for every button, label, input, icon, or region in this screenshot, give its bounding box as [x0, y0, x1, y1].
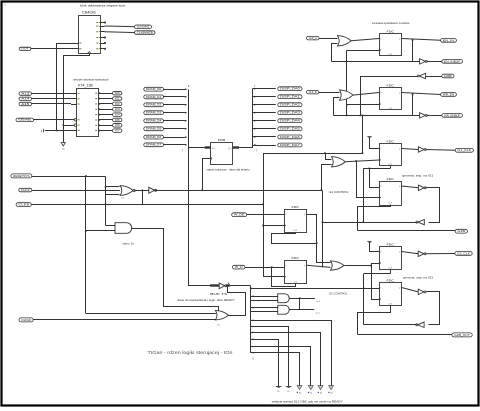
svg-text:FDC: FDC: [387, 278, 396, 282]
bus entry thick stub FD8 input: [205, 146, 211, 148]
wire G2 output to F2 D: [353, 93, 379, 96]
bus exit thick stub FD8 output: [233, 146, 239, 148]
vertical clock x356 to F4 C: [357, 162, 380, 198]
ground bar symbol 2: [286, 386, 292, 388]
svg-text:TIGari - rdzen logiki sterujac: TIGari - rdzen logiki sterujacej - tOri: [148, 350, 233, 355]
wire into AND input 1: [106, 225, 116, 227]
svg-text:b2a: b2a: [122, 198, 125, 200]
junction dot phi at G3 branch: [321, 190, 323, 192]
gate U6 OR 3-input bottom: [215, 310, 228, 320]
pin marks inside C64CIE: [96, 22, 98, 23]
enable pin G2A bubble: [74, 119, 77, 122]
wire G1 output to F1 D: [351, 39, 379, 41]
svg-text:A2: A2: [320, 391, 322, 394]
wire output bus to tag VD6: [252, 136, 275, 138]
wire bus to AND E2b input1: [251, 307, 278, 309]
svg-text:M1: M1: [287, 391, 289, 393]
wire M1 Q right and down to OR G4: [307, 215, 331, 263]
output bus vertical: [252, 89, 254, 148]
pin stub C64CIE left 2: [73, 48, 79, 50]
wire output bus to tag VD2: [252, 104, 275, 106]
svg-text:W_DE: W_DE: [234, 215, 245, 217]
wire to inverter G0 from mesh: [360, 76, 419, 78]
pin stub C64CIE right 3: [100, 31, 105, 33]
wire F4 Q to inverter F4a: [402, 186, 419, 188]
svg-text:CAS0: CAS0: [21, 319, 32, 322]
net label tag VD2 right column: [278, 103, 302, 107]
net label tag CLKDOT: [16, 203, 31, 207]
wire FD8 output to right bus: [239, 147, 252, 149]
wire bus branch 6 to ground column x=299.5: [251, 353, 300, 387]
net label tag AEC wide: [16, 118, 34, 122]
buffer U7 BUF TS tri-state: [219, 283, 225, 289]
junction dot mesh: [346, 115, 348, 117]
svg-text:A0: A0: [62, 148, 64, 151]
wire bus branch 3 to ground column x=320.5: [251, 333, 321, 387]
wire bus branch 4 to ground column x=278.6: [251, 340, 279, 387]
net label tag CLK8MHZ at C64CIE output 3: [135, 31, 156, 35]
corner mark: [4, 3, 7, 6]
pin stub K74_138 output Y6: [99, 125, 113, 127]
inverter U19 F4b left-pointing: [418, 219, 424, 224]
svg-text:W_D: W_D: [235, 267, 244, 269]
inverter U17 F3a: [418, 147, 424, 152]
junction dot F2 C: [346, 104, 348, 106]
wire C64CIE pin2 to tag: [105, 25, 135, 28]
net label tag Y6: [113, 124, 122, 128]
enable pin G1 stub: [45, 130, 77, 132]
wire tag to M2 D input: [245, 267, 284, 269]
wire M1 CLR feedback loop: [272, 233, 317, 244]
net label tag PHI0 at C64CIE output 2: [135, 25, 152, 29]
svg-text:C64CIE: C64CIE: [82, 10, 97, 14]
ground arrow symbol 4: [329, 386, 334, 390]
svg-text:FDC: FDC: [387, 29, 396, 33]
wire tag A15 to K74: [32, 103, 72, 105]
svg-text:A14: A14: [21, 98, 30, 101]
svg-text:DRAM_D7: DRAM_D7: [146, 144, 162, 147]
svg-text:FD8: FD8: [218, 138, 226, 142]
wire M2 Q to OR G4 input: [307, 265, 331, 267]
wire G3 input 2 from phi vertical: [322, 165, 332, 191]
pin marks inside K74_138: [95, 93, 97, 94]
wire NOR output to buffer: [134, 190, 149, 192]
wire RESET to NOR input 1 elbow: [106, 177, 120, 187]
net label tag D6 mid column: [144, 135, 164, 139]
bus thick stub BUFTS output: [226, 284, 230, 286]
net label tag D3 mid column: [144, 111, 164, 115]
junction dot F2 Q: [412, 94, 414, 96]
svg-text:CLK2: CLK2: [21, 190, 31, 192]
flip-flop F6 FDC: [380, 283, 402, 306]
wire buffer output phi long line right: [155, 190, 322, 192]
junction dot RESET branch: [85, 175, 87, 177]
power VCC symbol 2: [367, 241, 371, 243]
wire tag D0 to input bus: [164, 89, 186, 91]
svg-text:A1: A1: [310, 391, 312, 394]
wire C64CIE pin3 to tag: [105, 31, 135, 34]
net label tag D1 mid column: [144, 95, 164, 99]
svg-text:generat. zeg. na /G1: generat. zeg. na /G1: [402, 174, 434, 177]
wire tag AEC to G2A pin: [34, 119, 75, 121]
wire F1 Q to tag R1: [402, 39, 441, 41]
inverter U15 F2a: [420, 113, 426, 118]
svg-text:DISP_DA6: DISP_DA6: [280, 136, 301, 139]
flip-flop F3 FDC: [380, 144, 402, 166]
wire inverter F1a to tag R2: [427, 61, 442, 63]
gate U8 AND E2a: [278, 294, 290, 303]
junction dot NOR output: [142, 190, 144, 192]
tick mark above BUFTS enable junction: [228, 283, 229, 285]
svg-text:RESETSYS: RESETSYS: [13, 176, 30, 178]
svg-text:M0: M0: [277, 391, 279, 393]
wire C64CIE left pin1 down to K74 G1 net: [57, 44, 73, 131]
net label tag R3: [442, 74, 454, 78]
junction dot F6 D branch: [250, 288, 252, 290]
svg-text:DISP_DA5: DISP_DA5: [280, 128, 301, 131]
svg-text:DISP_DA2: DISP_DA2: [280, 104, 301, 107]
net label tag Y4: [113, 113, 122, 117]
ground arrow symbol 3: [318, 386, 323, 390]
junction dot FD8 clock on phi net: [201, 190, 203, 192]
net label tag D5 mid column: [144, 127, 164, 131]
wire G3 input 1 from y153 line: [326, 154, 332, 160]
svg-text:DRAM_D3: DRAM_D3: [146, 112, 162, 115]
wire output bus to tag VD1: [252, 96, 275, 98]
junction dot on F4b line: [362, 221, 364, 223]
wire tag CLKDOT right long: [31, 204, 263, 206]
chip U2 K74_138: [77, 89, 99, 137]
net label tag Y0: [113, 91, 122, 95]
svg-text:dane do wyswietlenia i sygn. o: dane do wyswietlenia i sygn. obsl. READY: [178, 299, 236, 302]
wire clock to M2 C: [263, 276, 284, 278]
junction dot M2 loop: [271, 266, 273, 268]
svg-text:DISP_DA3: DISP_DA3: [280, 112, 301, 115]
flip-flop F2 FDC: [380, 88, 402, 110]
wire bus to AND E2b input2: [251, 311, 278, 313]
net label tag Y2: [113, 102, 122, 106]
svg-text:DISP_DA4: DISP_DA4: [280, 120, 301, 123]
pin stub C64CIE right 1: [100, 22, 105, 24]
net label tag R8: [455, 252, 472, 256]
vertical x363.2 down to F4b output line: [363, 168, 365, 222]
wire AND E2b output: [289, 309, 314, 311]
svg-text:E1 CONTROL: E1 CONTROL: [330, 190, 350, 194]
wire AND input 2: [86, 230, 115, 232]
net label tag VD6 right column: [278, 135, 302, 139]
vertical wire RESET branch down to OR: [85, 176, 87, 313]
wire tag D5 to input bus: [164, 128, 186, 130]
svg-text:DRAM_D4: DRAM_D4: [146, 120, 162, 123]
net label tag to M1 D: [232, 213, 247, 217]
svg-text:dekoder obszarow adresowych: dekoder obszarow adresowych: [73, 78, 109, 81]
power VCC symbol 1: [367, 136, 371, 138]
net label tag VD0 right column: [278, 87, 302, 91]
svg-text:Q[..]: Q[..]: [228, 148, 232, 150]
svg-text:IOENABL: IOENABL: [18, 119, 32, 122]
wire R7 net to F4 CLR: [358, 205, 391, 231]
wire tag RESET right: [32, 176, 106, 178]
wire feedback line y61 left: [332, 61, 413, 63]
svg-text:BUF TS: BUF TS: [210, 292, 227, 296]
svg-text:blok taktowania zegara syst.: blok taktowania zegara syst.: [80, 4, 126, 8]
net label tag Y5: [113, 118, 122, 122]
net label tag CLK to G2: [307, 90, 319, 94]
wire F2 Q to tag R4: [402, 93, 441, 95]
inverter U21 F6a: [418, 289, 424, 294]
junction dot: [56, 130, 58, 132]
wire tag to G1 input: [319, 38, 338, 40]
junction dot y153: [362, 152, 364, 154]
wire AND E2a output: [289, 298, 315, 300]
svg-text:wejscia wariant 512 OBC gdy ni: wejscia wariant 512 OBC gdy nie uzyte na…: [272, 399, 343, 403]
flip-flop F1 FDC: [380, 34, 402, 56]
svg-text:E2 CONTROL: E2 CONTROL: [329, 291, 348, 295]
junction dot M1 C: [262, 225, 264, 227]
chip U1 C64CIE: [79, 16, 101, 54]
pin stub K74_138 output Y4: [99, 114, 113, 116]
svg-text:CLK8MHZB: CLK8MHZB: [137, 32, 154, 34]
junction dot clk8 join: [262, 204, 264, 206]
svg-text:G1B: G1B: [457, 231, 465, 233]
svg-text:K74_138: K74_138: [78, 84, 93, 88]
inverter U22 F6b left-pointing: [418, 322, 424, 327]
net label tag CLK2: [19, 188, 32, 192]
wire to inverter F1a: [413, 61, 420, 63]
svg-text:name 2x: name 2x: [122, 244, 135, 246]
wire BUFTS output to E2 bus corner: [230, 285, 251, 287]
net label tag R1: [441, 39, 457, 43]
wire VCC2 down to F5 D: [370, 243, 380, 252]
wire output bus to tag VD0: [252, 88, 275, 90]
gate U9 AND E2b: [278, 305, 290, 314]
input bus vertical to FD8: [189, 90, 205, 148]
gate U14 OR G2: [340, 90, 354, 100]
net label tag CLK to G1: [307, 36, 320, 40]
wire tag CLK2 to NOR input 2: [32, 190, 120, 192]
net label tag A13 input A: [19, 92, 32, 95]
svg-text:sterowanie wyswietlaniem na ek: sterowanie wyswietlaniem na ekranie: [372, 22, 410, 25]
svg-text:DRAM_D1: DRAM_D1: [146, 96, 162, 99]
svg-text:CLK_B: CLK_B: [309, 92, 317, 94]
wire tag D4 to input bus: [164, 120, 186, 122]
junction dot M1 CLR loop: [316, 242, 318, 244]
net label tag R6: [455, 148, 473, 152]
gate U5 AND left: [115, 223, 132, 234]
junction dot NOR in1: [105, 186, 107, 188]
wire clock down to F6 C: [372, 266, 380, 300]
wire F5 Q to inverter F5a: [402, 252, 419, 254]
svg-text:A0: A0: [299, 391, 301, 394]
E2 bus vertical: [250, 286, 252, 353]
net label tag RESET wide: [11, 174, 32, 178]
clock mesh vertical x346.8: [346, 50, 348, 115]
pin stub K74_138 output Y2: [99, 103, 113, 105]
svg-text:DOT: DOT: [21, 49, 29, 51]
pin stub C64CIE right 2: [100, 26, 105, 28]
wire tag to C64CIE left pin2: [31, 48, 73, 50]
wire bottom line to tag R7: [358, 230, 456, 232]
wire long to F6 D input: [251, 288, 379, 290]
junction dot x322 y222: [322, 221, 324, 223]
svg-text:A15: A15: [21, 103, 30, 106]
net label tag R2: [442, 60, 463, 64]
junction dot: [360, 115, 362, 117]
pin stub C64CIE left 1: [73, 43, 79, 45]
svg-text:DISP_DA1: DISP_DA1: [280, 96, 301, 99]
vertical from NOR area down to AND input: [105, 187, 107, 225]
inverter U20 F5a: [418, 251, 424, 256]
svg-text:FDC: FDC: [387, 177, 396, 181]
pin stub K74_138 output Y5: [99, 119, 113, 121]
vertical x322.5 from phi junction down: [322, 191, 324, 268]
junction dot clock branch x356: [355, 160, 357, 162]
wire reset branch to OR input: [86, 313, 216, 315]
net label tag R7: [455, 229, 467, 233]
svg-text:rejestr buforowy - dane dla ek: rejestr buforowy - dane dla ekranu: [207, 169, 251, 172]
net label tag D7 mid column: [144, 143, 164, 147]
wire F6b output left: [364, 324, 417, 326]
pin stub K74_138 input C: [71, 104, 77, 106]
net label tag A14 input B: [19, 97, 32, 100]
wire F5 CLR net horizontal: [364, 273, 391, 275]
vertical x363.8 down to F6b output line: [363, 274, 365, 325]
wire inverter F4a right and down: [426, 188, 440, 223]
wire F1 C clock from mesh: [347, 50, 379, 52]
junction dot F1 Q: [412, 39, 414, 41]
stub up to F5 CLR: [390, 270, 392, 274]
vertical mesh x360.4: [360, 76, 362, 115]
pin stub K74_138 input B: [71, 98, 77, 100]
wire output bus to tag VD4: [252, 120, 275, 122]
junction dot feedback drop: [362, 115, 364, 117]
gate U16 OR G3: [332, 157, 346, 167]
inverter U18 F4a: [418, 185, 424, 190]
wire tag D1 to input bus: [164, 96, 186, 98]
wire FD8 clock from control net: [203, 159, 211, 191]
net label tag VD5 right column: [278, 127, 302, 131]
svg-text:G2B_OUT: G2B_OUT: [454, 335, 471, 337]
net label tag Y7: [113, 129, 122, 133]
svg-text:G0B: G0B: [444, 76, 452, 78]
flip-flop M1 FDC: [285, 210, 307, 233]
wire tag D6 to input bus: [164, 137, 186, 139]
junction dot G4 clock branch: [370, 265, 372, 267]
svg-text:FDC: FDC: [292, 256, 301, 260]
junction dot on vertical 105.5: [105, 204, 107, 206]
svg-text:G1_CLK: G1_CLK: [457, 150, 471, 152]
wire F3 CLR net horizontal: [363, 168, 390, 170]
register FD8: [211, 143, 233, 165]
svg-text:EN_IN: EN_IN: [443, 40, 455, 42]
wire inverter F2a to tag R5: [427, 115, 442, 117]
wire bus branch 2 to ground column x=288.6: [251, 327, 289, 387]
wire F4 D from CLR net: [370, 169, 380, 188]
net label tag D4 mid column: [144, 119, 164, 123]
svg-text:b1a: b1a: [217, 325, 220, 327]
net label tag R9: [452, 333, 472, 337]
feedback wire F1 to G1 second input: [332, 44, 338, 62]
junction dot F4 D branch: [369, 168, 371, 170]
svg-text:EN_INBUF: EN_INBUF: [444, 61, 461, 63]
svg-text:CLK_A: CLK_A: [309, 37, 318, 40]
feedback line y115 left: [334, 115, 420, 117]
wire tag D7 to input bus: [164, 144, 186, 146]
pin stub K74_138 output Y3: [99, 109, 113, 111]
flip-flop M2 FDC: [285, 261, 307, 284]
flip-flop F5 FDC: [380, 247, 402, 270]
svg-text:FDC: FDC: [387, 139, 396, 143]
wire G4 output to F5 F6 clocks: [345, 264, 380, 266]
svg-text:D[..]: D[..]: [212, 148, 216, 150]
gate U10 OR G4: [331, 261, 345, 270]
enable pin G2B bubble: [74, 124, 77, 127]
svg-text:A13: A13: [21, 92, 30, 95]
wire bus to AND E2a input1: [251, 296, 278, 298]
net label tag VD7 right column: [278, 143, 302, 147]
feedback wire F2 to G2 second input: [334, 98, 340, 116]
svg-text:FDC: FDC: [387, 242, 396, 246]
svg-text:DISP_DA0: DISP_DA0: [280, 88, 301, 91]
wire VCC1 down to F3 D: [370, 138, 380, 149]
pin stub K74_138 output Y7: [99, 130, 113, 132]
ground arrow symbol 2: [308, 386, 313, 390]
wire M2 CLR feedback loop: [272, 268, 296, 287]
junction dot on G2B wire: [63, 124, 65, 126]
net label tag VD1 right column: [278, 95, 302, 99]
wire R9 net to F6 CLR: [358, 306, 391, 335]
svg-text:DRAM_D5: DRAM_D5: [146, 128, 162, 131]
net label tag to M2 D: [233, 265, 246, 269]
wire tag CAS to OR bottom input: [33, 319, 217, 321]
wire output bus to tag VD3: [252, 112, 275, 114]
junction dot: [299, 297, 301, 299]
svg-text:CLK8: CLK8: [18, 204, 30, 206]
wire OR output loop to BUFTS enable: [228, 287, 246, 316]
wire F3 Q to inverter F3a: [402, 149, 419, 150]
wire bus branch 1 to ground column x=331.1: [251, 321, 332, 387]
wire bus branch 5 to ground column x=310.8: [251, 347, 311, 387]
net label tag D2 mid column: [144, 103, 164, 107]
wire inverter F3a to tag R6: [425, 149, 455, 152]
gate U3 NOR 3-input: [120, 186, 133, 196]
wire F6 Q to inverter F6a: [402, 288, 419, 292]
wire NOR output down to clk8 line: [142, 191, 144, 205]
wire F2 Q down to inverter F2a: [412, 94, 414, 115]
wire y153 left to clock net x263: [263, 153, 363, 155]
clock net vertical x263: [263, 153, 265, 277]
svg-text:G2_CLK: G2_CLK: [457, 253, 471, 255]
pin stub K74_138 output Y0: [99, 93, 113, 95]
net label tag DOTCLK left of C64CIE: [19, 47, 31, 50]
vertical bus from input bus down to BUFTS: [189, 148, 211, 286]
net label tag CAS bottom left: [19, 318, 33, 322]
wire NOR input 3: [106, 194, 120, 196]
wire continues down to off-page arrow: [63, 125, 65, 142]
wire inverter F6a right and down: [426, 292, 440, 325]
wire F4b output left to x322 vertical: [323, 222, 417, 224]
net label tag Y1: [113, 97, 122, 101]
vertical cross-connect between AND outputs: [299, 298, 301, 310]
wire output bus to tag VD5: [252, 128, 275, 130]
wire AND output right and down: [132, 229, 219, 312]
net label tag Y3: [113, 108, 122, 112]
svg-text:A3: A3: [331, 391, 333, 394]
junction dot G3 in1: [324, 152, 326, 154]
off-page arrow marker down: [61, 143, 65, 147]
wire G3 output to F3 C: [345, 160, 379, 162]
stub up to F3 CLR: [390, 166, 392, 168]
